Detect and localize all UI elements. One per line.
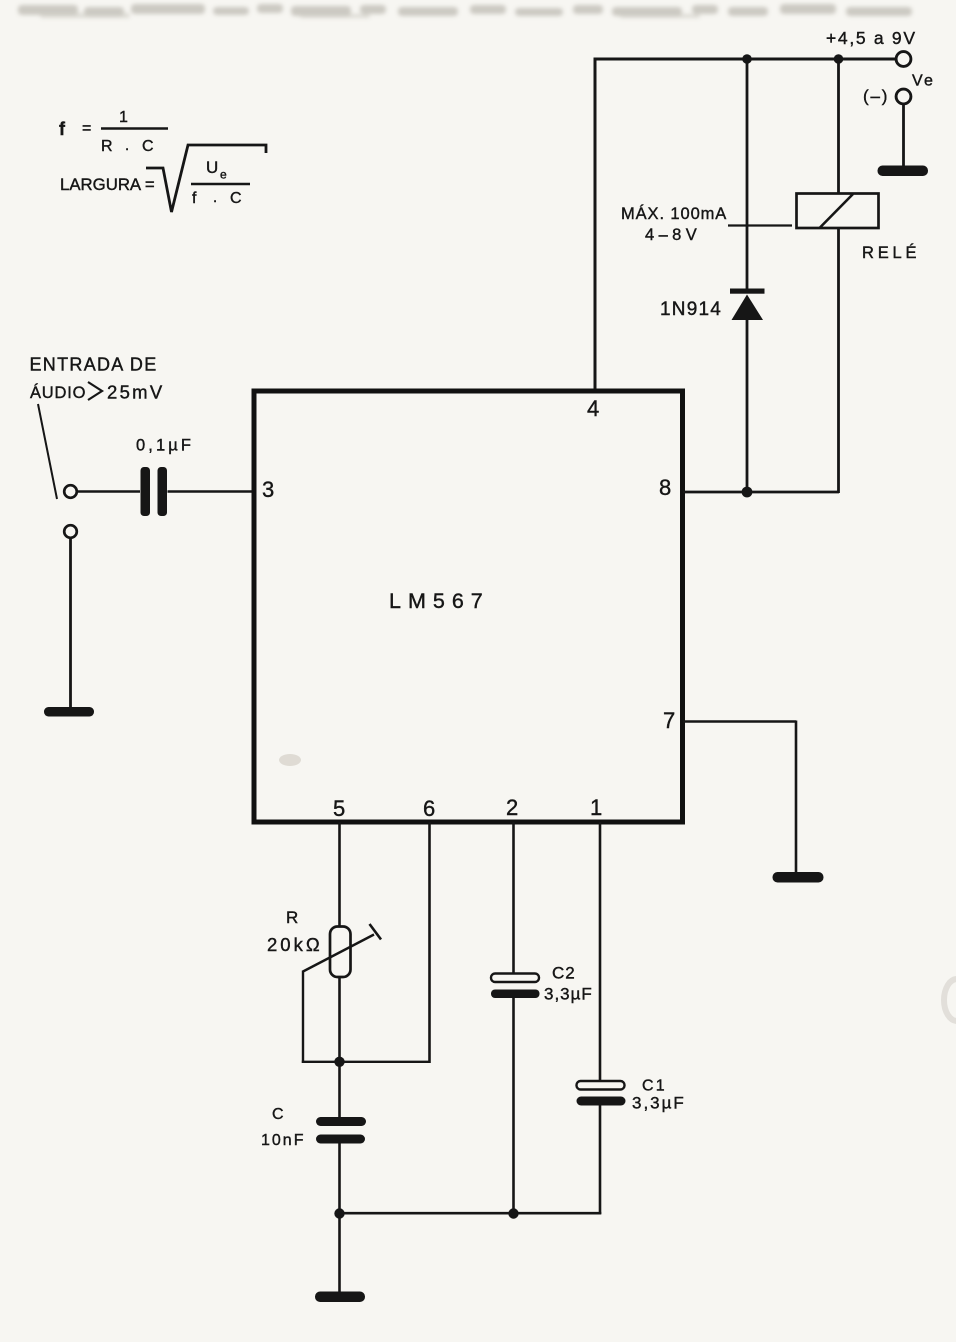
svg-text:(–): (–): [863, 87, 889, 106]
svg-text:e: e: [220, 168, 227, 182]
svg-text:4–8V: 4–8V: [645, 226, 701, 244]
svg-text:0,1µF: 0,1µF: [136, 437, 194, 455]
svg-text:8: 8: [659, 475, 671, 500]
svg-text:+4,5 a 9V: +4,5 a 9V: [826, 28, 917, 48]
svg-text:LM567: LM567: [389, 589, 490, 613]
svg-text:C1: C1: [642, 1078, 667, 1095]
svg-text:ÁUDIO: ÁUDIO: [30, 383, 86, 402]
svg-text:R: R: [286, 908, 298, 927]
svg-text:U: U: [206, 158, 218, 177]
svg-text:f: f: [192, 190, 197, 207]
svg-text:R: R: [101, 138, 113, 155]
svg-text:3: 3: [262, 477, 274, 502]
svg-text:MÁX. 100mA: MÁX. 100mA: [621, 204, 727, 223]
svg-text:7: 7: [663, 708, 675, 733]
svg-text:2: 2: [506, 795, 518, 820]
svg-text:Ve: Ve: [912, 73, 935, 90]
svg-text:1N914: 1N914: [660, 299, 722, 320]
svg-text:1: 1: [590, 795, 602, 820]
svg-text:ENTRADA DE: ENTRADA DE: [30, 355, 158, 375]
svg-text:3,3µF: 3,3µF: [544, 985, 593, 1004]
svg-text:5: 5: [333, 796, 345, 821]
svg-text:RELÉ: RELÉ: [862, 243, 920, 262]
svg-text:.: .: [125, 137, 129, 154]
svg-text:C2: C2: [552, 964, 576, 983]
svg-text:C: C: [230, 190, 242, 207]
svg-text:3,3µF: 3,3µF: [632, 1094, 686, 1113]
svg-text:25mV: 25mV: [107, 382, 165, 403]
svg-text:.: .: [213, 189, 217, 206]
svg-text:4: 4: [587, 396, 599, 421]
svg-text:f: f: [59, 119, 66, 139]
svg-text:C: C: [142, 138, 154, 155]
svg-text:=: =: [82, 120, 91, 137]
svg-text:20kΩ: 20kΩ: [267, 934, 323, 955]
svg-text:1: 1: [119, 109, 128, 126]
svg-text:6: 6: [423, 796, 435, 821]
svg-text:10nF: 10nF: [261, 1132, 305, 1149]
svg-text:LARGURA =: LARGURA =: [60, 175, 155, 194]
svg-text:C: C: [272, 1106, 284, 1123]
